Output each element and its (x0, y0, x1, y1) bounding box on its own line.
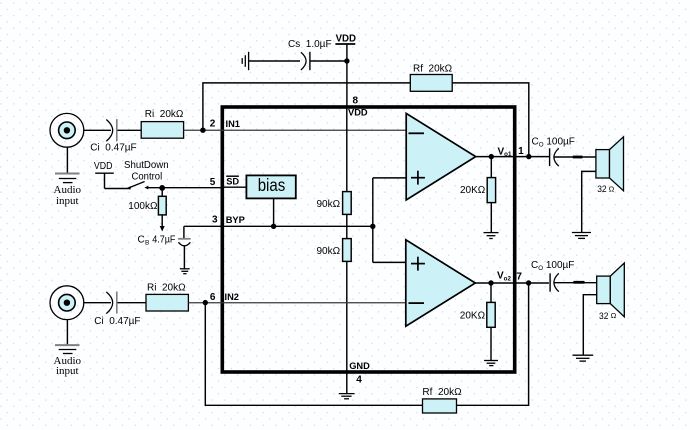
op-amp A1 (ch1) (406, 113, 476, 200)
svg-text:32: 32 (599, 310, 608, 321)
connector J1 audio input (RCA) (50, 113, 84, 147)
capacitor Cs curved plate (301, 52, 306, 70)
svg-text:1: 1 (518, 146, 524, 157)
wire J1 to Ci (84, 129, 111, 131)
wire VDD to switch (105, 188, 130, 190)
resistor 90kOhm upper (343, 192, 352, 215)
wire A2 output to pin 7 (475, 282, 549, 284)
svg-text:2: 2 (210, 119, 216, 130)
switch S1 shutdown blade (129, 182, 145, 188)
resistor 100kOhm (158, 196, 166, 215)
resistor 90kOhm lower (343, 239, 352, 262)
node IN2 junction dot (203, 300, 208, 305)
resistor 20KOhm (ch2) (487, 302, 495, 327)
ferrite dash (ch2) (573, 281, 584, 284)
svg-text:bias: bias (258, 175, 286, 195)
svg-text:Ω: Ω (609, 184, 615, 193)
wire A1 output to pin 1 (476, 156, 549, 158)
svg-text:Cs 1.0µF: Cs 1.0µF (288, 39, 332, 50)
capacitor Cs straight plate (309, 52, 311, 70)
svg-text:4.7µF: 4.7µF (152, 235, 175, 246)
wire 100k to arrow (161, 215, 163, 227)
wire Ri to op-amp inverting input (IN2) (188, 302, 406, 304)
svg-text:Ci 0.47µF: Ci 0.47µF (90, 142, 136, 153)
wire CB to ground (183, 246, 185, 269)
svg-text:20KΩ: 20KΩ (460, 185, 486, 196)
wire feedback ch1 from IN1 node up and across (203, 83, 410, 130)
svg-text:100kΩ: 100kΩ (128, 201, 158, 212)
node IN1 junction dot (200, 128, 205, 133)
capacitor Co straight plate (ch1) (549, 148, 551, 166)
svg-text:Rf 20kΩ: Rf 20kΩ (413, 64, 453, 75)
wire J2 to Ci (ch2) (84, 302, 111, 304)
node Vo2 internal junction dot (488, 280, 493, 285)
wire Rf bottom to Vo2 node (457, 283, 529, 406)
node bias/BYP junction dot (271, 224, 276, 229)
svg-text:4: 4 (356, 375, 362, 386)
svg-text:C: C (138, 235, 145, 246)
svg-text:7: 7 (516, 271, 522, 282)
capacitor Co curved plate (ch2) (554, 273, 559, 291)
svg-text:3: 3 (212, 215, 218, 226)
svg-text:Ri 20kΩ: Ri 20kΩ (145, 109, 184, 120)
wire plus-net to op-amp2 (373, 261, 406, 263)
block bias (246, 175, 295, 198)
capacitor Ci curved plate (ch2) (106, 292, 112, 314)
wire switch to pin 5 (147, 187, 223, 189)
node Vo1 internal junction dot (489, 154, 494, 159)
wire divider middle (346, 214, 348, 238)
svg-text:CO 100µF: CO 100µF (531, 260, 574, 272)
svg-text:90kΩ: 90kΩ (317, 246, 341, 257)
wire plus-net vertical (372, 178, 374, 263)
node VDD junction dot (344, 58, 349, 63)
node Vo1 feedback junction dot (526, 154, 531, 159)
svg-text:VDD: VDD (94, 161, 113, 172)
node Vo2 feedback junction dot (526, 280, 531, 285)
svg-text:IN1: IN1 (226, 119, 240, 129)
wire Ci to Ri (ch1) (118, 129, 142, 131)
wire feedback ch2 from IN2 node down and across (205, 303, 422, 406)
pin name SD (with overline) (226, 176, 239, 186)
capacitor Co straight plate (ch2) (549, 273, 551, 291)
wire VDD node to pin 8 (346, 61, 348, 107)
resistor Rf (bottom) (423, 399, 457, 413)
capacitor CB straight plate (178, 238, 191, 240)
node SD junction dot (159, 185, 165, 191)
wire speaker return to ground (ch2) (583, 295, 596, 356)
svg-text:Rf 20kΩ: Rf 20kΩ (422, 387, 462, 398)
svg-text:6: 6 (210, 292, 216, 303)
svg-text:B: B (145, 240, 149, 247)
ground (rotated) at Cs (242, 52, 248, 70)
svg-text:input: input (56, 365, 79, 377)
wire Co to speaker (ch1) (555, 156, 596, 158)
wire BYP down to CB (183, 226, 185, 238)
wire VDD rail into divider (346, 107, 348, 192)
wire Rf to Vo1 node (452, 83, 529, 157)
wire bias to BYP (273, 198, 275, 226)
ferrite dash (ch1) (573, 156, 583, 159)
wire Co to speaker (ch2) (555, 282, 597, 284)
resistor Ri (ch2) (146, 294, 188, 311)
svg-text:GND: GND (349, 361, 370, 371)
svg-text:20KΩ: 20KΩ (460, 310, 486, 321)
ground at pin 4 (339, 394, 355, 399)
svg-text:BYP: BYP (226, 215, 245, 225)
ground at J2 (ch2) (55, 320, 80, 354)
wire Vo1 to 20K load (490, 157, 492, 178)
svg-text:CO 100µF: CO 100µF (532, 136, 575, 148)
switch S1 arrow contact (144, 186, 148, 190)
capacitor Ci curved plate (ch1) (106, 120, 112, 142)
svg-text:VDD: VDD (336, 33, 356, 44)
capacitor CB curved plate (178, 242, 190, 246)
ground at J1 (ch1) (55, 147, 80, 182)
wire plus-net to op-amp1 (373, 177, 406, 179)
switch S1 pole arrowhead (127, 186, 132, 190)
svg-text:5: 5 (210, 177, 216, 188)
speaker LS2 (597, 263, 625, 317)
capacitor Co curved plate (ch1) (554, 148, 559, 166)
wire Ci to Ri (ch2) (118, 302, 147, 304)
wire Cs to VDD node (310, 60, 347, 62)
op-amp IC U1 package outline (222, 107, 514, 372)
svg-text:Control: Control (132, 171, 163, 182)
ground at 20K (ch1) (484, 233, 499, 239)
svg-text:ShutDown: ShutDown (124, 160, 169, 171)
svg-text:90kΩ: 90kΩ (317, 199, 341, 210)
svg-text:IN2: IN2 (225, 292, 239, 302)
ground at speaker (ch2) (573, 355, 594, 361)
resistor 20KOhm (ch1) (487, 178, 495, 203)
capacitor Ci straight plate (ch1) (116, 119, 118, 141)
wire SD pin into bias box (222, 186, 246, 188)
op-amp A2 (ch2) (406, 240, 476, 326)
svg-text:Ri 20kΩ: Ri 20kΩ (147, 282, 186, 293)
wire Ri to op-amp inverting input (IN1) (184, 129, 407, 131)
wire speaker return to ground (ch1) (582, 171, 596, 232)
ground at speaker (ch1) (572, 233, 591, 239)
svg-text:32: 32 (597, 183, 606, 194)
arrow ground pointer below 100k (160, 226, 165, 232)
wire 20K to ground (ch1) (490, 203, 492, 233)
svg-text:8: 8 (353, 96, 359, 107)
ground at CB (180, 269, 190, 274)
wire divider to GND pin (346, 261, 348, 393)
svg-text:SD: SD (226, 176, 239, 186)
resistor Ri (ch1) (141, 122, 183, 139)
wire ground to Cs (249, 60, 300, 62)
connector J2 audio input (RCA) (50, 286, 84, 320)
speaker LS1 (596, 137, 624, 191)
svg-text:input: input (56, 195, 79, 207)
svg-text:Ω: Ω (611, 311, 617, 320)
node BYP to plus-net junction dot (370, 224, 375, 229)
svg-text:VDD: VDD (348, 107, 368, 117)
ground at 20K (ch2) (484, 361, 498, 366)
svg-text:Ci 0.47µF: Ci 0.47µF (94, 316, 140, 327)
capacitor Ci straight plate (ch2) (116, 292, 118, 314)
power symbol VDD top (335, 33, 356, 61)
wire Vo2 to 20K load (490, 283, 492, 302)
resistor Rf (top) (410, 75, 452, 92)
wire 20K to ground (ch2) (490, 327, 492, 360)
wire BYP net (184, 225, 373, 227)
wire SD node to R pulldown (161, 188, 163, 196)
power symbol VDD at shutdown switch (94, 161, 114, 189)
